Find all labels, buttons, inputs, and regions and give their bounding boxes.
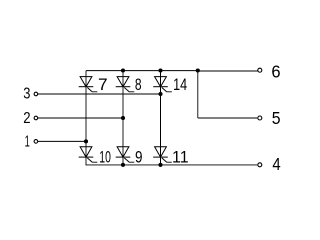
svg-text:2: 2: [23, 110, 30, 127]
svg-text:10: 10: [99, 148, 111, 167]
svg-text:8: 8: [135, 76, 142, 94]
svg-text:5: 5: [272, 108, 281, 128]
svg-text:6: 6: [271, 61, 280, 81]
svg-text:14: 14: [173, 76, 187, 94]
svg-text:4: 4: [272, 154, 281, 174]
svg-text:9: 9: [135, 148, 143, 167]
svg-text:1: 1: [25, 133, 30, 150]
svg-text:7: 7: [98, 76, 108, 94]
svg-text:3: 3: [23, 86, 30, 103]
svg-text:11: 11: [172, 148, 189, 167]
